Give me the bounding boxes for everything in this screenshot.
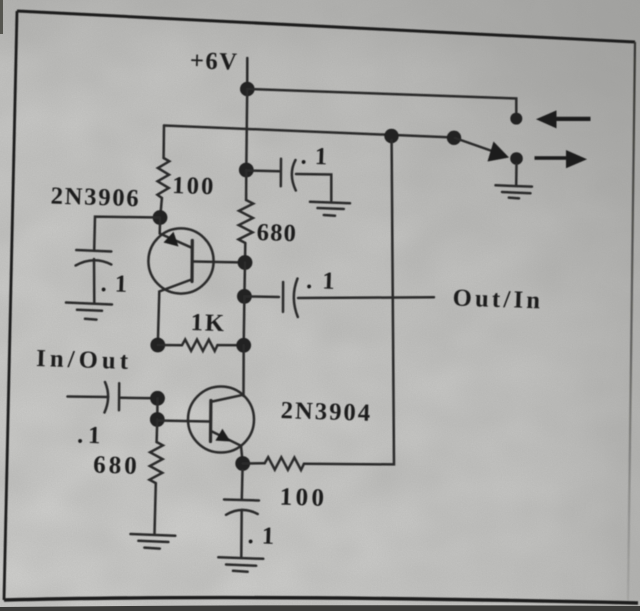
wire rail down to R1 [162, 126, 165, 159]
transistor Q2 2N3904 body [188, 387, 254, 453]
arrow input (pointing left) [536, 110, 591, 128]
wire +6V to switch upper contact [247, 89, 516, 112]
svg-text:.1: .1 [77, 422, 106, 450]
svg-text:+6V: +6V [190, 47, 239, 76]
svg-text:.1: .1 [306, 267, 345, 295]
capacitor C1 plates [76, 250, 112, 266]
ground G2 (C1) [66, 303, 112, 320]
wire C3m to Out/In [298, 296, 434, 299]
node M: Q2 emitter junction dot [235, 456, 250, 471]
wire center column to resistor 680 upper [245, 170, 248, 200]
arrow output (pointing right) [535, 150, 588, 168]
node I: coupling cap junction dot [237, 289, 252, 304]
node C: switch pole junction dot [384, 129, 398, 143]
svg-text:Out/In: Out/In [452, 285, 543, 315]
wire node G to node I [243, 263, 246, 297]
svg-text:.1: .1 [247, 522, 282, 550]
switch blade arrowhead [488, 142, 510, 162]
wire node F to capacitor C1 [94, 217, 160, 250]
wire input stub [68, 395, 109, 398]
border frame top [17, 11, 635, 42]
Q2 emitter wire [212, 432, 243, 464]
wire node I to capacitor C3m [244, 295, 279, 298]
capacitor C3m plates (.1 out coupling) [283, 279, 298, 318]
node L: Q2 base junction dot [150, 412, 165, 427]
border frame right [628, 42, 635, 601]
svg-text:680: 680 [256, 219, 297, 247]
transistor Q1 2N3906 body [148, 228, 213, 293]
Q1 base bar [190, 241, 194, 282]
node K: input junction dot [150, 391, 165, 406]
Q2 emitter arrow (NPN, points out) [215, 429, 230, 442]
node D: switch wiper pivot dot [447, 131, 461, 145]
svg-text:.1: .1 [100, 270, 135, 298]
wire node J down to Q2 collector [242, 345, 245, 396]
wire C4i to node K [121, 397, 158, 400]
capacitor C2t plates (.1 to ground) [281, 159, 296, 191]
wire 680 to node G [244, 243, 247, 263]
Q2 base bar [209, 401, 213, 442]
photo bottom dark band [0, 605, 640, 611]
left edge dark mark [0, 0, 3, 34]
svg-text:2N3906: 2N3906 [50, 183, 141, 213]
resistor 680 (lower) [150, 442, 163, 483]
node F: Q1 emitter junction dot [153, 210, 168, 225]
wire node M to capacitor C5 [241, 470, 244, 499]
node G2c: center column top junction dot [239, 163, 254, 178]
resistor 1K [182, 340, 218, 352]
wire rail to switch poles [164, 126, 454, 138]
ground G3 (680 lower) [131, 534, 176, 549]
node B: switch upper contact dot [510, 113, 522, 125]
resistor 680 (upper) [239, 200, 254, 243]
resistor 100 (upper) [157, 158, 169, 198]
svg-text:680: 680 [93, 452, 140, 480]
wire 680 lower to ground [155, 483, 156, 534]
wire 1K to node J [218, 344, 244, 347]
node A: +6V rail junction dot [240, 82, 255, 97]
wire 100 lower to feedback column [304, 140, 394, 464]
node E: switch lower contact dot [510, 152, 523, 165]
svg-text:In/Out: In/Out [36, 345, 133, 375]
switch blade wire [455, 138, 492, 151]
wire C1 to ground [93, 259, 96, 303]
resistor 100 (lower) [265, 457, 304, 470]
Q2 collector wire [212, 395, 243, 402]
wire node M to resistor 100 lower [243, 462, 265, 465]
ground G5 (C2t) [310, 202, 350, 216]
wire +6V stub [246, 58, 249, 89]
svg-text:2N3904: 2N3904 [280, 397, 372, 427]
ground G1 (switch) [496, 185, 533, 198]
capacitor C5 plates (.1 emitter bypass) [224, 500, 259, 515]
wire node L to Q2 base [157, 421, 209, 422]
wire node L to resistor 680 lower [155, 420, 158, 443]
wire center column from node A down [245, 89, 248, 170]
wire switch contact to ground [515, 164, 518, 185]
wire node I to node J [242, 296, 245, 345]
Q1 emitter arrow (PNP, points to base) [164, 232, 179, 247]
node H: 1K left junction dot [150, 338, 165, 353]
wire node K to node L [156, 398, 159, 419]
border frame left [4, 11, 17, 600]
svg-text:.1: .1 [300, 143, 335, 171]
wire C2t to ground [296, 174, 331, 201]
wire C5 to ground [240, 510, 243, 557]
border frame bottom [4, 598, 638, 603]
node G: Q1 base junction dot [238, 255, 253, 270]
Q1 collector wire [158, 280, 192, 346]
capacitor C4i plates (.1 input coupling) [105, 382, 120, 413]
Q1 emitter wire [160, 218, 191, 247]
wire R1 bottom to node F [160, 198, 162, 218]
ground G4 (C5) [218, 557, 263, 572]
svg-text:1K: 1K [190, 309, 226, 337]
wire node H to 1K [158, 344, 182, 347]
svg-text:100: 100 [172, 172, 216, 200]
svg-text:100: 100 [279, 483, 328, 511]
Q1 base wire to center column [194, 262, 246, 263]
node J: 1K right junction dot [236, 338, 251, 353]
wire junction to capacitor C2t [246, 169, 279, 172]
